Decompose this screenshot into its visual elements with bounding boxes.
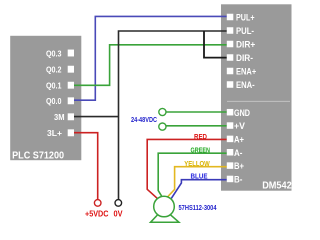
svg-text:3L+: 3L+ [47,129,62,138]
terminal 0V circle [115,200,122,207]
PLC S7-1200 module body [10,36,81,160]
svg-text:24-48VDC: 24-48VDC [131,117,157,124]
svg-text:+5VDC: +5VDC [85,210,109,219]
svg-text:Q0.2: Q0.2 [46,66,62,75]
label YELLOW [184,161,210,168]
label PLC S71200 [12,151,64,162]
svg-text:BLUE: BLUE [191,174,208,181]
svg-text:GND: GND [234,108,250,118]
label DM542 [262,180,292,192]
wire Q0.0 to PUL+ (blue) [74,16,227,100]
wire supply+ to GND (green) [166,111,227,113]
svg-text:A-: A- [234,148,242,158]
svg-text:Q0.3: Q0.3 [46,49,62,58]
svg-text:DIR-: DIR- [236,53,253,63]
svg-text:PLC S71200: PLC S71200 [12,151,64,162]
svg-text:ENA+: ENA+ [236,67,256,77]
wire supply- to +V (green) [166,125,227,127]
terminal +5VDC circle [94,200,101,207]
svg-text:DM542: DM542 [262,180,292,192]
svg-text:RED: RED [194,134,207,141]
DM542 terminal labels [234,13,256,185]
label BLUE [191,174,208,181]
svg-text:57HS112-3004: 57HS112-3004 [179,205,217,212]
svg-text:3M: 3M [54,113,65,122]
PLC terminal squares [68,50,74,137]
wire 3L+ to +5VDC (red) [74,133,98,200]
DM542 internal separator line [227,100,290,102]
svg-text:YELLOW: YELLOW [184,161,210,168]
PLC terminal labels [46,49,65,138]
svg-text:0V: 0V [114,210,124,219]
svg-text:+V: +V [234,121,245,131]
stepper motor body circle [154,196,175,217]
DM542 terminal squares [227,14,234,182]
wire motor A- (green) [158,153,227,197]
DM542 driver body [221,4,292,190]
wire motor A+ (red) [147,139,227,198]
stepper motor base trapezoid [151,214,180,222]
wire motor B- (blue) [171,180,227,199]
svg-text:PUL+: PUL+ [236,13,255,23]
label +5VDC [85,210,109,219]
svg-text:Q0.1: Q0.1 [46,82,62,91]
24-48VDC supply terminal circles [159,108,166,130]
wire motor B+ (yellow) [167,167,226,197]
svg-text:Q0.0: Q0.0 [46,97,62,106]
svg-text:ENA-: ENA- [236,80,255,90]
svg-text:B+: B+ [234,161,244,171]
label 0V [114,210,124,219]
svg-text:B-: B- [234,175,242,185]
wire Q0.1 to DIR+ (green) [74,45,227,86]
label RED [194,134,207,141]
svg-text:GREEN: GREEN [191,147,211,154]
label 24-48VDC [131,117,157,124]
wire 3M to PUL- / DIR- / 0V (black) [74,31,227,200]
label GREEN [191,147,211,154]
svg-text:A+: A+ [234,135,244,145]
svg-text:DIR+: DIR+ [236,40,255,50]
svg-text:PUL-: PUL- [236,26,254,36]
label 57HS112-3004 [179,205,217,212]
